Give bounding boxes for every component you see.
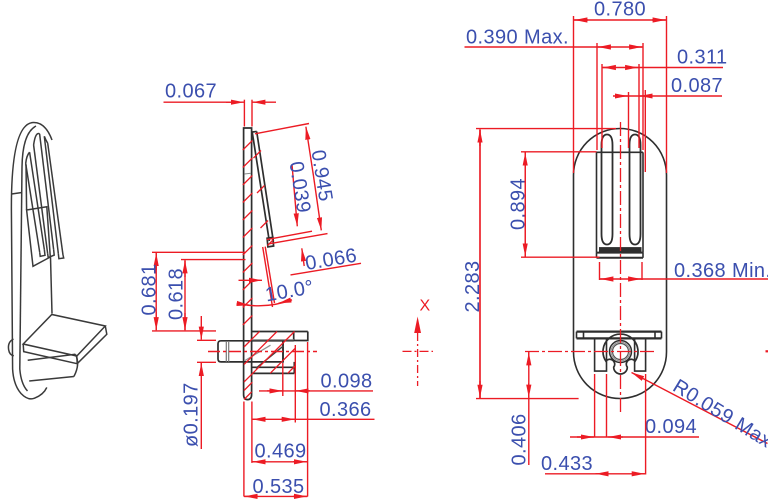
- svg-text:0.406: 0.406: [508, 413, 530, 465]
- svg-text:X: X: [420, 298, 431, 315]
- svg-text:0.681: 0.681: [139, 263, 161, 315]
- svg-text:0.469: 0.469: [255, 441, 307, 463]
- svg-text:ø0.197: ø0.197: [180, 382, 202, 447]
- svg-text:0.366: 0.366: [320, 399, 372, 421]
- svg-text:2.283: 2.283: [462, 260, 484, 312]
- svg-text:0.368 Min.: 0.368 Min.: [674, 260, 768, 282]
- svg-text:0.780: 0.780: [594, 0, 646, 21]
- svg-text:0.618: 0.618: [166, 268, 188, 320]
- svg-text:0.311: 0.311: [677, 47, 728, 69]
- svg-text:0.390 Max.: 0.390 Max.: [466, 27, 569, 49]
- svg-text:0.087: 0.087: [671, 75, 723, 97]
- svg-text:0.894: 0.894: [508, 178, 530, 230]
- svg-text:0.098: 0.098: [321, 371, 373, 393]
- svg-text:0.433: 0.433: [541, 453, 593, 475]
- svg-text:0.067: 0.067: [165, 81, 217, 103]
- svg-text:0.066: 0.066: [304, 245, 359, 275]
- svg-text:0.094: 0.094: [645, 416, 697, 438]
- svg-text:0.535: 0.535: [253, 476, 305, 498]
